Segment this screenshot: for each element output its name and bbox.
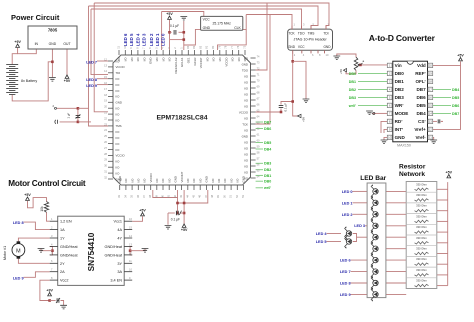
svg-text:4A: 4A xyxy=(117,228,122,232)
wire LED label stub 2 xyxy=(353,213,368,215)
svg-text:13: 13 xyxy=(429,120,433,124)
labels JTAG bottom xyxy=(288,45,331,49)
svg-text:TDO: TDO xyxy=(298,31,305,35)
svg-text:LED 4: LED 4 xyxy=(135,33,140,46)
svg-text:TDO: TDO xyxy=(242,68,249,72)
svg-text:CLK: CLK xyxy=(234,26,241,30)
wire motor bottom to 2Y xyxy=(18,259,49,264)
svg-text:TDI: TDI xyxy=(116,71,121,75)
svg-text:1 µF: 1 µF xyxy=(67,113,71,119)
wire node vertical xyxy=(77,108,79,122)
svg-text:OE1: OE1 xyxy=(187,57,191,63)
svg-text:0.1 µF: 0.1 µF xyxy=(284,103,288,112)
label 8x Battery xyxy=(21,79,37,83)
svg-text:+5V: +5V xyxy=(181,228,188,232)
svg-text:IN: IN xyxy=(35,42,39,46)
svg-text:+5V: +5V xyxy=(24,193,31,197)
wire cap2 to node xyxy=(60,121,78,123)
svg-text:GND: GND xyxy=(242,176,246,182)
svg-text:SN754410: SN754410 xyxy=(87,232,96,271)
junction bot b xyxy=(183,202,186,205)
svg-text:330 Ohm: 330 Ohm xyxy=(416,182,427,186)
svg-text:LED 9: LED 9 xyxy=(13,276,24,280)
junction bot c xyxy=(176,212,179,215)
wire gnd stem xyxy=(183,21,185,45)
svg-text:LED 5: LED 5 xyxy=(316,240,327,244)
svg-text:12: 12 xyxy=(429,128,433,132)
wire cap left xyxy=(170,31,172,33)
svg-text:TMS: TMS xyxy=(308,31,315,35)
svg-text:1,2 EN: 1,2 EN xyxy=(60,220,72,224)
wire bar to network 9 xyxy=(386,293,406,295)
LED bar segment 5 xyxy=(371,242,378,256)
svg-text:+5V: +5V xyxy=(339,69,343,74)
junction pot wiper xyxy=(359,64,362,67)
junction bot a xyxy=(176,202,179,205)
svg-text:GND/Heat: GND/Heat xyxy=(104,253,122,257)
wire cap to gnd node xyxy=(179,31,184,33)
svg-text:+5V: +5V xyxy=(302,117,306,122)
svg-text:VCCIO: VCCIO xyxy=(116,154,126,158)
svg-text:330 Ohm: 330 Ohm xyxy=(416,225,427,229)
wire network to bus 8 xyxy=(437,274,448,276)
net label DB6 adc right xyxy=(452,104,459,108)
labels JTAG top xyxy=(288,31,328,35)
wire DB stub chip 4 xyxy=(256,162,263,164)
wire cap to gnd2 xyxy=(61,301,64,306)
svg-text:DB1: DB1 xyxy=(349,80,356,84)
chip right pin stubs xyxy=(251,58,256,178)
wire JTAG TDI net rail xyxy=(94,3,329,29)
wire network to bus 3 xyxy=(437,220,448,222)
power +5V pot xyxy=(339,69,347,75)
net label DB0 chip xyxy=(264,180,271,184)
svg-text:DB6: DB6 xyxy=(264,127,271,131)
svg-text:20: 20 xyxy=(429,64,433,68)
SN754410 pin labels xyxy=(60,220,123,283)
wire 9V to IN xyxy=(18,48,37,54)
wire vccio net xyxy=(256,109,281,113)
label MAX150 xyxy=(397,144,411,148)
wire DB stub chip 3 xyxy=(256,148,263,150)
wire pot wiper xyxy=(360,64,387,66)
svg-text:GND: GND xyxy=(174,176,178,182)
ground jtag xyxy=(303,99,310,103)
LED bar U6 body xyxy=(367,183,386,298)
svg-text:+9V: +9V xyxy=(14,40,21,44)
svg-text:DB7: DB7 xyxy=(264,120,271,124)
svg-text:LED 1: LED 1 xyxy=(155,33,160,46)
junction cap node a xyxy=(77,107,80,110)
title Motor Control Circuit xyxy=(8,179,86,188)
svg-text:DB6: DB6 xyxy=(452,104,459,108)
svg-text:Vcc1: Vcc1 xyxy=(114,220,122,224)
wire osc CLK xyxy=(218,29,247,50)
svg-text:GND: GND xyxy=(149,58,153,64)
wire LED9 stub xyxy=(97,84,108,86)
LED bar segment 4 xyxy=(371,230,378,244)
junction jtag cap xyxy=(291,100,294,103)
net label wr0’ adc xyxy=(348,104,356,108)
svg-text:VCC: VCC xyxy=(298,45,305,49)
wire network to bus 7 xyxy=(437,263,448,265)
svg-text:LED 6: LED 6 xyxy=(340,259,351,263)
net label LED 7 bar xyxy=(340,270,351,274)
svg-text:GND: GND xyxy=(242,134,248,138)
chip right pin labels xyxy=(239,56,249,180)
wire pot top gnd xyxy=(337,54,356,57)
capacitor C5 cs xyxy=(438,119,443,123)
LED bar segment 7 xyxy=(371,264,378,278)
wire motor top to 1Y xyxy=(18,238,49,241)
wire rail to TCK header xyxy=(246,15,292,30)
svg-text:RD’: RD’ xyxy=(395,119,403,124)
svg-text:Motor #1: Motor #1 xyxy=(3,246,7,260)
LED bar segment 1 xyxy=(371,196,378,210)
svg-text:VCCIO: VCCIO xyxy=(224,57,228,67)
CPLD U2 EPM7128SLC84 body xyxy=(113,55,251,185)
svg-text:GCLR: GCLR xyxy=(193,58,197,66)
svg-text:LED 7: LED 7 xyxy=(86,61,97,65)
voltage regulator U3 7805 box xyxy=(28,26,77,49)
LED bar segment 2 xyxy=(371,207,378,221)
svg-text:TMS: TMS xyxy=(116,124,122,128)
power +5V chip bottom xyxy=(181,224,188,232)
wire LED label stub 9 xyxy=(351,293,368,295)
net label DB3 chip xyxy=(264,162,271,166)
ground power circuit xyxy=(49,78,56,82)
wire network to bus 2 xyxy=(437,210,448,212)
ground MODE xyxy=(366,111,375,115)
chip bottom pin numbers xyxy=(117,194,245,198)
svg-text:LED 7: LED 7 xyxy=(340,270,351,274)
net label LED 8 motor xyxy=(13,221,24,225)
capacitor C1 terminal xyxy=(53,104,57,109)
chip left pin stubs xyxy=(108,61,113,179)
svg-text:GND: GND xyxy=(323,45,331,49)
svg-text:DB3: DB3 xyxy=(349,96,356,100)
svg-text:17: 17 xyxy=(429,88,433,92)
chip top pin labels xyxy=(117,57,247,74)
svg-text:DB1: DB1 xyxy=(395,79,405,84)
chip top pin numbers xyxy=(117,45,247,48)
wire TCK drop right xyxy=(256,15,270,125)
wire jtag gnd link xyxy=(293,61,306,99)
svg-text:330 Ohm: 330 Ohm xyxy=(416,257,427,261)
svg-text:wr0’: wr0’ xyxy=(348,104,356,108)
wire Vref- gnd xyxy=(433,137,434,140)
net label LED 2 bar xyxy=(342,213,353,217)
svg-text:JTAG 10-Pin Header: JTAG 10-Pin Header xyxy=(294,38,328,42)
svg-text:18: 18 xyxy=(429,80,433,84)
ADC pin boxes xyxy=(387,63,432,139)
svg-text:25.175 MHz: 25.175 MHz xyxy=(213,21,232,25)
wire DB stub chip 2 xyxy=(256,142,263,144)
label osc VCC xyxy=(203,17,211,21)
wire bot pin drop2 xyxy=(177,198,179,214)
svg-text:DB0: DB0 xyxy=(395,71,405,76)
wire 9V to battery xyxy=(12,54,17,65)
ground motor right xyxy=(142,249,149,253)
svg-text:8x Battery: 8x Battery xyxy=(21,79,37,83)
svg-text:M: M xyxy=(16,248,21,254)
power +9V motor xyxy=(46,289,53,296)
ground osc xyxy=(180,16,187,20)
net label DB4 adc right xyxy=(452,88,459,92)
wire LED8 stub xyxy=(97,78,108,80)
wire DB stub chip 5 xyxy=(256,169,263,171)
title A-to-D Converter xyxy=(369,33,436,43)
net label LED 8 bar xyxy=(340,282,351,286)
battery V1 8x xyxy=(6,65,18,95)
wire bar to network 5 xyxy=(386,248,406,250)
wire LED label stub 8 xyxy=(351,282,368,284)
junction gnd/heat L xyxy=(51,249,54,252)
wire DB stub chip 6 xyxy=(256,174,263,176)
svg-text:LED 8: LED 8 xyxy=(13,221,24,225)
capacitor C4 0.1uF jtag xyxy=(279,103,288,112)
wire INT stub xyxy=(384,129,387,133)
svg-text:EPM7182SLC84: EPM7182SLC84 xyxy=(156,115,207,122)
svg-text:TDI: TDI xyxy=(323,31,328,35)
wire bot pin drop3 xyxy=(183,190,185,224)
svg-text:0.1 µF: 0.1 µF xyxy=(171,217,180,221)
ADC U5 MAX150 body xyxy=(393,61,428,142)
svg-text:LED 0: LED 0 xyxy=(342,190,353,194)
wire Vdd to 5V xyxy=(433,62,461,66)
wire network to bus 4 xyxy=(437,231,448,233)
capacitor C3 0.1uF xyxy=(170,24,179,35)
wire DB stub adc left 3 xyxy=(358,96,387,98)
svg-text:330 Ohm: 330 Ohm xyxy=(416,204,427,208)
wire LED4 ext xyxy=(327,233,342,235)
svg-text:DB0: DB0 xyxy=(349,72,356,76)
label osc GND xyxy=(203,26,211,30)
wire jtag cap link xyxy=(281,102,293,105)
svg-text:VCCIO: VCCIO xyxy=(116,65,126,69)
svg-text:10: 10 xyxy=(388,136,392,140)
wire resistor to 1,2EN xyxy=(47,212,50,221)
svg-text:REF’: REF’ xyxy=(415,71,425,76)
svg-text:330 Ohm: 330 Ohm xyxy=(416,279,427,283)
wire LED label stub 6 xyxy=(351,259,368,261)
svg-text:TCK: TCK xyxy=(242,122,248,126)
wire jtag pin2 down xyxy=(293,53,298,116)
svg-text:DB2: DB2 xyxy=(349,88,356,92)
svg-text:7805: 7805 xyxy=(48,28,58,33)
net label DB3 adc xyxy=(349,96,356,100)
svg-text:LED 4: LED 4 xyxy=(316,232,328,236)
wire DB stub adc left 2 xyxy=(358,88,387,90)
wire network to bus 5 xyxy=(437,242,448,244)
wire gnd L link xyxy=(41,249,52,251)
svg-text:330 Ohm: 330 Ohm xyxy=(416,268,427,272)
svg-text:3A: 3A xyxy=(117,270,122,274)
junction 9V xyxy=(48,299,51,302)
svg-text:Network: Network xyxy=(399,171,425,178)
oscillator X1 25.175MHz box xyxy=(201,16,243,30)
wire LED label stub 0 xyxy=(353,190,368,192)
svg-text:LED 9: LED 9 xyxy=(86,84,97,88)
wire osc GND xyxy=(184,29,201,45)
svg-text:LED 5: LED 5 xyxy=(129,33,134,46)
wire LED7 stub xyxy=(97,60,108,62)
title LED Bar xyxy=(360,175,386,182)
capacitor C9 link xyxy=(76,114,81,118)
svg-text:DB0: DB0 xyxy=(264,180,271,184)
svg-text:3Y: 3Y xyxy=(117,262,122,266)
wire Vdd to Vref+ xyxy=(433,65,461,129)
LED D4 external xyxy=(344,226,351,240)
svg-text:+5V: +5V xyxy=(64,79,71,83)
pin labels 7805 xyxy=(35,42,71,46)
wire node to chip a xyxy=(78,107,89,109)
resistor network cell dividers xyxy=(406,192,437,278)
net label LED 6 bar xyxy=(340,259,351,263)
svg-text:DB2: DB2 xyxy=(264,168,271,172)
svg-text:DB4: DB4 xyxy=(452,88,459,92)
LED bar segment 8 xyxy=(371,276,378,290)
svg-text:MAX150: MAX150 xyxy=(397,144,411,148)
junction bypass b xyxy=(183,31,186,34)
net label DB7 chip xyxy=(264,120,271,124)
junction GND net xyxy=(51,61,54,64)
svg-text:DB7: DB7 xyxy=(452,112,459,116)
ADC pin labels xyxy=(395,63,427,140)
svg-text:LED 8: LED 8 xyxy=(340,282,351,286)
svg-text:+9V: +9V xyxy=(46,289,53,293)
svg-text:LED 2: LED 2 xyxy=(149,33,154,46)
svg-text:4Y: 4Y xyxy=(117,237,122,241)
wire bar to network 2 xyxy=(386,213,406,215)
svg-text:GND: GND xyxy=(205,176,209,182)
potentiometer R12 xyxy=(354,57,364,70)
wire DB stub chip 8 xyxy=(256,187,263,189)
net label DB7 adc right xyxy=(452,112,459,116)
wire LED label stub 7 xyxy=(351,271,368,273)
label 7805 xyxy=(48,28,58,33)
wire 5V to resistor xyxy=(28,198,47,208)
svg-text:GCLK1: GCLK1 xyxy=(180,57,184,67)
net label DB5 adc right xyxy=(452,96,459,100)
resistor R13 10k xyxy=(40,202,49,213)
power +5V vcc1 xyxy=(139,209,146,216)
wire bar to network 6 xyxy=(386,259,406,261)
wire to pin GND xyxy=(183,45,185,50)
net label DB1 chip xyxy=(264,174,271,178)
label JTAG title xyxy=(294,38,328,42)
wire bar to network 7 xyxy=(386,271,406,273)
svg-text:GND/Heat: GND/Heat xyxy=(60,245,78,249)
capacitor C7 motor xyxy=(56,298,60,303)
svg-text:+5V: +5V xyxy=(446,171,453,175)
ground chip bottom xyxy=(165,225,172,229)
net label LED 8 left xyxy=(86,78,97,82)
SN754410 pin stubs xyxy=(50,221,133,280)
svg-text:GND: GND xyxy=(203,26,211,30)
svg-text:15: 15 xyxy=(429,104,433,108)
ground adc right xyxy=(430,140,437,144)
wire DB stub adc right 2 xyxy=(433,104,451,106)
svg-text:Vcc2: Vcc2 xyxy=(60,279,68,283)
chip top pin stubs xyxy=(119,50,245,55)
LED bar segment 0 xyxy=(371,184,378,198)
wire DB stub chip 7 xyxy=(256,180,263,182)
label EPM7128SLC84 xyxy=(156,115,207,122)
svg-text:3,4 EN: 3,4 EN xyxy=(110,279,122,283)
wire DB stub adc left 1 xyxy=(358,80,387,82)
svg-text:10k: 10k xyxy=(40,206,44,212)
svg-text:CS’: CS’ xyxy=(418,119,426,124)
svg-text:1Y: 1Y xyxy=(60,237,65,241)
ADC notch xyxy=(407,61,413,64)
junction jtag gnd xyxy=(291,60,294,63)
svg-text:DB1: DB1 xyxy=(264,174,271,178)
wire bar to network 8 xyxy=(386,282,406,284)
net label LED 4 bar xyxy=(316,232,328,236)
svg-text:GND/Heat: GND/Heat xyxy=(104,245,122,249)
svg-text:GND: GND xyxy=(118,176,122,182)
svg-text:LED Bar: LED Bar xyxy=(360,175,386,182)
wire DB stub adc right 3 xyxy=(433,112,451,114)
svg-text:VCCINT: VCCINT xyxy=(180,172,184,183)
svg-text:DB5: DB5 xyxy=(264,141,271,145)
wire TDO drop right xyxy=(256,3,267,70)
svg-text:11: 11 xyxy=(429,136,432,140)
chip bottom pin labels xyxy=(118,172,246,183)
wire bypass link xyxy=(170,39,184,41)
svg-text:+5V: +5V xyxy=(166,12,173,16)
svg-text:Vref+: Vref+ xyxy=(414,127,426,132)
SN754410 pin numbers xyxy=(51,217,132,280)
wire osc VCC drop to pin xyxy=(161,12,163,51)
svg-text:LED 3: LED 3 xyxy=(142,33,147,46)
wire JTAG TMS net rail xyxy=(89,6,319,29)
svg-text:GND: GND xyxy=(116,101,122,105)
svg-text:GND: GND xyxy=(395,135,406,140)
wire LED5 ext xyxy=(327,241,342,243)
svg-text:VCCIO: VCCIO xyxy=(239,110,249,114)
svg-text:A-to-D Converter: A-to-D Converter xyxy=(369,33,436,43)
wire RD stub xyxy=(381,121,387,133)
svg-text:19: 19 xyxy=(429,72,433,76)
wire gnd/heat left xyxy=(50,247,53,255)
title Power Circuit xyxy=(11,13,60,22)
svg-text:GND: GND xyxy=(49,42,57,46)
net label LED 5 bar xyxy=(316,240,327,244)
ground adc left xyxy=(381,140,388,144)
svg-text:INT’: INT’ xyxy=(395,127,404,132)
svg-text:OFL’: OFL’ xyxy=(415,79,425,84)
connector J1 JTAG 10-pin header box xyxy=(288,29,333,50)
wire DB stub chip 1 xyxy=(256,128,263,130)
svg-text:16: 16 xyxy=(429,96,433,100)
junction bypass a xyxy=(168,31,171,34)
net label DB0 adc xyxy=(349,72,356,76)
svg-text:14: 14 xyxy=(429,112,433,116)
power +9V main xyxy=(14,40,21,47)
JTAG pin numbers xyxy=(294,23,330,58)
net label LED 9 motor xyxy=(13,276,24,280)
svg-text:Motor Control Circuit: Motor Control Circuit xyxy=(8,179,86,188)
svg-text:WR’: WR’ xyxy=(395,103,404,108)
ground motor 9V xyxy=(60,305,67,309)
wire osc VCC rail xyxy=(162,12,204,17)
power +5V osc xyxy=(166,12,173,19)
svg-text:330 Ohm: 330 Ohm xyxy=(416,236,427,240)
wire network to bus 0 xyxy=(437,188,448,190)
svg-text:GND/Heat: GND/Heat xyxy=(60,253,78,257)
